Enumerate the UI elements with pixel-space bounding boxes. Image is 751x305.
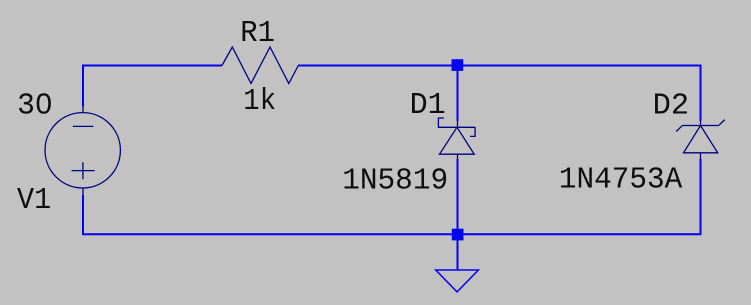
zener diode D2 <box>676 120 725 160</box>
wire ground stub <box>457 234 459 270</box>
wire bottom-left vertical (V1 to bottom rail) <box>82 195 84 235</box>
junction node 1 (top) <box>452 59 464 71</box>
svg-text:30: 30 <box>17 89 53 124</box>
svg-text:V1: V1 <box>17 183 51 218</box>
wire top-left vertical from V1 to top rail <box>82 65 84 107</box>
resistor R1 <box>222 47 298 84</box>
wire top rail right segment (R1 to D2 corner) <box>298 65 701 67</box>
svg-text:R1: R1 <box>240 16 275 51</box>
junction node 2 (bottom) <box>452 229 464 241</box>
wire right vertical upper (corner to D2) <box>700 65 702 122</box>
svg-text:1N5819: 1N5819 <box>342 164 448 199</box>
svg-text:D1: D1 <box>410 88 446 123</box>
wire D1 vertical lower (D1 to bottom rail) <box>457 159 459 235</box>
ground <box>436 270 479 292</box>
svg-text:D2: D2 <box>653 88 690 123</box>
wire top rail left segment (V1 to R1) <box>82 65 222 67</box>
wire D1 vertical upper (node to D1) <box>457 65 459 122</box>
svg-text:1k: 1k <box>243 84 276 119</box>
wire right vertical lower (D2 to bottom rail) <box>700 159 702 235</box>
voltage source V1 <box>45 104 120 196</box>
svg-text:1N4753A: 1N4753A <box>559 163 683 198</box>
wire bottom rail <box>82 233 701 235</box>
diode D1 (Schottky) <box>438 118 475 160</box>
